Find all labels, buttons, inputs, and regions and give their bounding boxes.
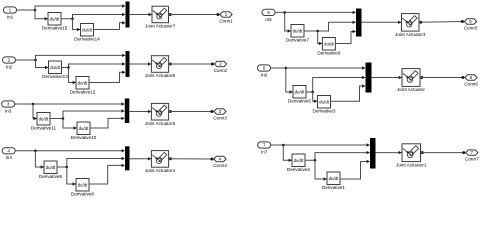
svg-text:du/dt: du/dt <box>294 158 305 163</box>
junction <box>66 166 69 169</box>
junction <box>462 151 465 154</box>
wire: actuator to output port <box>419 21 422 24</box>
svg-text:Joint Actuator6: Joint Actuator6 <box>145 73 176 78</box>
wire: branch to second derivative <box>69 68 76 83</box>
svg-text:du/dt: du/dt <box>295 89 306 94</box>
wire: actuator to output port <box>421 151 424 154</box>
derivative Derivative15 <box>42 13 68 31</box>
svg-text:du/dt: du/dt <box>46 165 57 170</box>
svg-text:Conn7: Conn7 <box>465 157 479 162</box>
wire: mux to joint actuator <box>129 111 151 113</box>
mux <box>125 146 130 170</box>
svg-text:Conn4: Conn4 <box>213 163 227 168</box>
wire: port to mux input 1 <box>15 150 124 152</box>
derivative Derivative3 <box>313 96 336 114</box>
junction <box>461 20 464 23</box>
svg-text:Joint Actuator4: Joint Actuator4 <box>145 168 176 173</box>
svg-text:In4: In4 <box>6 155 13 160</box>
junction <box>311 91 314 94</box>
joint actuator Joint Actuator <box>397 69 425 93</box>
inport In2 <box>3 57 16 70</box>
svg-text:In7: In7 <box>261 149 268 154</box>
mux <box>366 63 372 93</box>
wire: branch to first derivative <box>286 68 293 92</box>
svg-text:du/dt: du/dt <box>79 126 90 131</box>
svg-text:In2: In2 <box>6 64 13 69</box>
wire: mux to joint actuator <box>372 77 402 79</box>
wire: branch to first derivative <box>36 60 49 68</box>
svg-text:Joint Actuator5: Joint Actuator5 <box>145 121 176 126</box>
wire: branch to second derivative <box>318 31 322 44</box>
wire: actuator to output port <box>420 76 423 79</box>
connport Conn1 <box>219 12 233 24</box>
svg-text:Derivative12: Derivative12 <box>70 90 96 95</box>
svg-text:Conn6: Conn6 <box>464 81 478 86</box>
wire: actuator to output port <box>169 63 172 66</box>
junction <box>34 9 37 12</box>
svg-text:du/dt: du/dt <box>78 80 89 85</box>
inport In1 <box>4 7 17 20</box>
junction <box>62 117 65 120</box>
wire: port to mux input 1 <box>275 11 356 13</box>
svg-text:Derivative5: Derivative5 <box>288 99 311 104</box>
derivative Derivative9 <box>39 161 62 179</box>
junction <box>285 67 288 70</box>
mux <box>126 51 130 77</box>
junction <box>461 76 464 79</box>
joint actuator Joint Actuator7 <box>145 6 176 28</box>
svg-text:Conn3: Conn3 <box>213 115 227 120</box>
wire: first derivative to mux input 2 <box>305 153 370 161</box>
svg-text:Joint Actuator: Joint Actuator <box>397 87 425 92</box>
wire: port to mux input 1 <box>271 67 366 69</box>
mux <box>125 99 130 124</box>
junction <box>282 144 285 147</box>
derivative Derivative6 <box>317 38 340 56</box>
svg-text:Derivative13: Derivative13 <box>42 74 68 79</box>
svg-text:Derivative2: Derivative2 <box>287 167 310 172</box>
wire: first derivative to mux input 2 <box>62 64 126 68</box>
svg-text:du/dt: du/dt <box>50 65 61 70</box>
junction <box>32 103 35 106</box>
connport Conn4 <box>213 156 227 168</box>
svg-text:In3: In3 <box>5 108 12 113</box>
wire: port to mux input 1 <box>15 103 125 105</box>
mux <box>370 138 376 169</box>
wire: branch to first derivative <box>35 151 43 167</box>
svg-text:In1: In1 <box>7 14 14 19</box>
wire: branch to second derivative <box>313 92 317 101</box>
joint actuator Joint Actuator4 <box>145 151 176 173</box>
svg-text:Derivative15: Derivative15 <box>42 26 68 31</box>
svg-text:Derivative8: Derivative8 <box>71 192 94 197</box>
inport In6 <box>258 65 271 78</box>
wire: first derivative to mux input 2 <box>50 111 124 119</box>
junction <box>34 59 37 62</box>
wire: second derivative to mux input 3 <box>331 86 366 101</box>
wire: mux to joint actuator <box>130 14 152 16</box>
wire: second derivative to mux input 3 <box>90 118 124 128</box>
wire: mux to joint actuator <box>362 21 402 23</box>
wire: branch to second derivative <box>315 160 327 179</box>
svg-text:du/dt: du/dt <box>319 99 330 104</box>
svg-text:Derivative11: Derivative11 <box>31 126 57 131</box>
svg-text:In6: In6 <box>261 72 268 77</box>
derivative Derivative11 <box>31 113 57 131</box>
wire: second derivative to mux input 3 <box>89 165 125 184</box>
connport Conn5 <box>464 19 478 31</box>
svg-text:Conn5: Conn5 <box>464 25 478 30</box>
svg-text:du/dt: du/dt <box>39 116 50 121</box>
wire: second derivative to mux input 3 <box>340 162 370 180</box>
wire: actuator to output port <box>169 13 172 16</box>
wire: port to mux input 1 <box>17 6 126 10</box>
junction <box>71 17 74 20</box>
svg-text:Derivative9: Derivative9 <box>39 174 62 179</box>
svg-text:Joint Actuator3: Joint Actuator3 <box>395 32 426 37</box>
joint actuator Joint Actuator6 <box>145 56 176 78</box>
junction <box>210 158 213 161</box>
junction <box>211 63 214 66</box>
derivative Derivative13 <box>42 61 68 79</box>
connport Conn6 <box>464 75 478 87</box>
junction <box>283 11 286 14</box>
junction <box>34 150 37 153</box>
junction <box>67 66 70 69</box>
wire: branch to second derivative <box>67 167 76 184</box>
wire: port to mux input 1 <box>271 144 370 146</box>
derivative Derivative1 <box>322 172 345 190</box>
joint actuator Joint Actuator3 <box>395 14 426 37</box>
svg-text:Derivative14: Derivative14 <box>74 37 100 42</box>
inport In5 <box>262 9 275 21</box>
svg-text:Joint Actuator7: Joint Actuator7 <box>145 24 176 29</box>
svg-text:du/dt: du/dt <box>329 176 340 181</box>
wire: first derivative to mux input 2 <box>57 159 125 168</box>
svg-text:Conn1: Conn1 <box>219 18 233 23</box>
wire: second derivative to mux input 3 <box>94 23 126 30</box>
wire: second derivative to mux input 3 <box>89 72 125 82</box>
connport Conn2 <box>214 61 228 73</box>
connport Conn7 <box>465 150 479 162</box>
junction <box>314 159 317 162</box>
derivative Derivative7 <box>286 25 309 43</box>
junction <box>316 30 319 33</box>
svg-text:Derivative7: Derivative7 <box>286 38 309 43</box>
svg-text:In5: In5 <box>265 17 272 22</box>
inport In4 <box>2 148 15 161</box>
wire: branch to second derivative <box>63 119 77 129</box>
mux <box>356 9 362 37</box>
wire: second derivative to mux input 3 <box>335 32 355 44</box>
svg-text:Derivative10: Derivative10 <box>71 135 97 140</box>
wire: mux to joint actuator <box>130 158 151 160</box>
wire: first derivative to mux input 2 <box>61 15 125 19</box>
svg-text:Derivative3: Derivative3 <box>313 109 336 114</box>
inport In7 <box>258 142 271 155</box>
derivative Derivative5 <box>288 86 311 104</box>
wire: actuator to output port <box>169 157 172 160</box>
svg-text:Derivative6: Derivative6 <box>317 51 340 56</box>
wire: first derivative to mux input 2 <box>306 78 365 93</box>
svg-text:Joint Actuator1: Joint Actuator1 <box>396 162 427 167</box>
wire: mux to joint actuator <box>376 152 402 154</box>
svg-text:du/dt: du/dt <box>50 16 61 21</box>
wire: first derivative to mux input 2 <box>304 22 356 31</box>
derivative Derivative2 <box>287 154 310 172</box>
svg-text:du/dt: du/dt <box>293 28 304 33</box>
wire: branch to second derivative <box>73 19 81 30</box>
wire: branch to first derivative <box>33 104 37 119</box>
inport In3 <box>2 101 15 114</box>
svg-text:Derivative1: Derivative1 <box>322 185 345 190</box>
svg-text:du/dt: du/dt <box>324 41 335 46</box>
wire: branch to first derivative <box>285 12 291 31</box>
wire: mux to joint actuator <box>130 63 151 65</box>
derivative Derivative10 <box>71 122 97 140</box>
derivative Derivative14 <box>74 24 100 42</box>
wire: branch to first derivative <box>35 10 48 19</box>
derivative Derivative8 <box>71 179 94 197</box>
wire: actuator to output port <box>169 110 172 113</box>
mux <box>126 2 130 28</box>
derivative Derivative12 <box>70 77 96 95</box>
junction <box>216 13 219 16</box>
wire: port to mux input 1 <box>16 55 126 60</box>
svg-text:du/dt: du/dt <box>82 27 93 32</box>
svg-text:du/dt: du/dt <box>78 182 89 187</box>
svg-text:Conn2: Conn2 <box>214 68 228 73</box>
connport Conn3 <box>213 109 227 121</box>
wire: branch to first derivative <box>283 145 291 160</box>
joint actuator Joint Actuator5 <box>145 103 176 125</box>
junction <box>210 110 213 113</box>
joint actuator Joint Actuator1 <box>396 144 427 168</box>
